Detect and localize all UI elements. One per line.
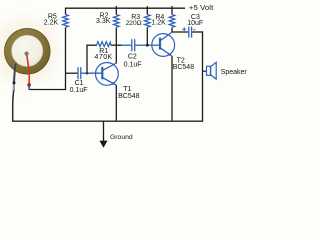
wire: left column to C1 left plate: [66, 72, 78, 74]
resistor R5 2.2K (vertical zigzag): [63, 15, 69, 28]
speaker symbol: [203, 62, 217, 79]
piezo red wire blue joint: [28, 86, 30, 90]
svg-text:BC548: BC548: [173, 64, 195, 71]
svg-text:C2: C2: [128, 53, 137, 60]
C3 plus sign: [182, 27, 186, 31]
capacitor C2 0.1uF (plates): [132, 39, 135, 51]
junction dot at C1/R1/base node: [86, 72, 89, 75]
piezo black wire light segment: [13, 85, 15, 91]
ground arrow: [103, 121, 105, 142]
svg-text:470K: 470K: [95, 54, 113, 61]
wire: R1 left lead: [87, 44, 97, 46]
svg-text:0.1uF: 0.1uF: [70, 87, 88, 94]
svg-text:Ground: Ground: [110, 134, 133, 141]
piezo solder joint: [24, 51, 28, 55]
C3 minus sign: [193, 29, 195, 31]
wire: R2 rail stub: [115, 6, 117, 14]
svg-text:0.1uF: 0.1uF: [124, 62, 142, 69]
capacitor C1 0.1uF (plates): [78, 67, 81, 79]
wire: T1 emitter down to ground rail: [115, 85, 117, 121]
wire: R3 bottom to T2 base node: [146, 28, 148, 46]
capacitor C3 10uF electrolytic (plates): [189, 27, 192, 38]
wire: +5V top rail: [66, 7, 186, 9]
wire: piezo red lead to left column: [29, 89, 66, 91]
wire: C2 right plate to T2 base: [135, 44, 149, 46]
svg-text:BC548: BC548: [118, 93, 140, 100]
wire: C1 right plate to T1 base: [81, 72, 102, 74]
transistor T2 BC548 (NPN): [152, 32, 175, 56]
wire: ground bottom rail: [12, 120, 203, 122]
wire: T2 emitter down to ground rail: [171, 56, 173, 121]
svg-text:3.3K: 3.3K: [96, 18, 111, 25]
svg-text:T1: T1: [123, 86, 131, 93]
junction dot at R3/T2 base node: [146, 44, 149, 47]
wire: R1 feedback left vertical: [86, 45, 88, 74]
resistor R2 3.3K (vertical zigzag): [114, 15, 120, 28]
wire: speaker column: [202, 31, 204, 121]
transistor T1 BC548 (NPN): [96, 63, 119, 86]
piezo disc (brass ring): [5, 29, 51, 75]
piezo red wire end bead: [27, 83, 31, 87]
wire: R1 right lead to collector node: [111, 44, 117, 46]
wire: T2 collector node to C3 plus plate: [172, 31, 188, 33]
svg-text:10uF: 10uF: [187, 20, 203, 27]
wire: R5 bottom / left column down to piezo wire: [65, 28, 67, 91]
svg-text:1.2K: 1.2K: [151, 20, 166, 27]
wire: R4 bottom to T2 collector node: [171, 28, 173, 33]
resistor R3 220ohm (vertical zigzag): [145, 15, 151, 28]
svg-text:220Ω: 220Ω: [126, 20, 142, 27]
piezo red wire: [27, 55, 30, 85]
wire: R3 rail stub: [146, 6, 148, 14]
wire: C3 right plate to speaker column: [192, 31, 203, 33]
wire: R5 top stub: [65, 8, 67, 15]
resistor R1 470K (horizontal zigzag): [97, 42, 111, 47]
wire: R2 bottom to T1 collector: [115, 28, 117, 64]
wire: collector node to C2 left plate: [116, 44, 122, 46]
piezo black wire blue bead: [13, 81, 16, 84]
piezo black wire: [14, 64, 16, 92]
svg-text:+5 Volt: +5 Volt: [189, 3, 214, 12]
resistor R4 1.2K (vertical zigzag): [169, 15, 175, 28]
cream photo halo behind piezo disc: [0, 18, 57, 86]
wire: R4 rail stub: [171, 6, 173, 14]
piezo ceramic inner disc: [12, 35, 43, 66]
svg-text:2.2K: 2.2K: [44, 20, 59, 27]
svg-text:Speaker: Speaker: [221, 69, 248, 76]
